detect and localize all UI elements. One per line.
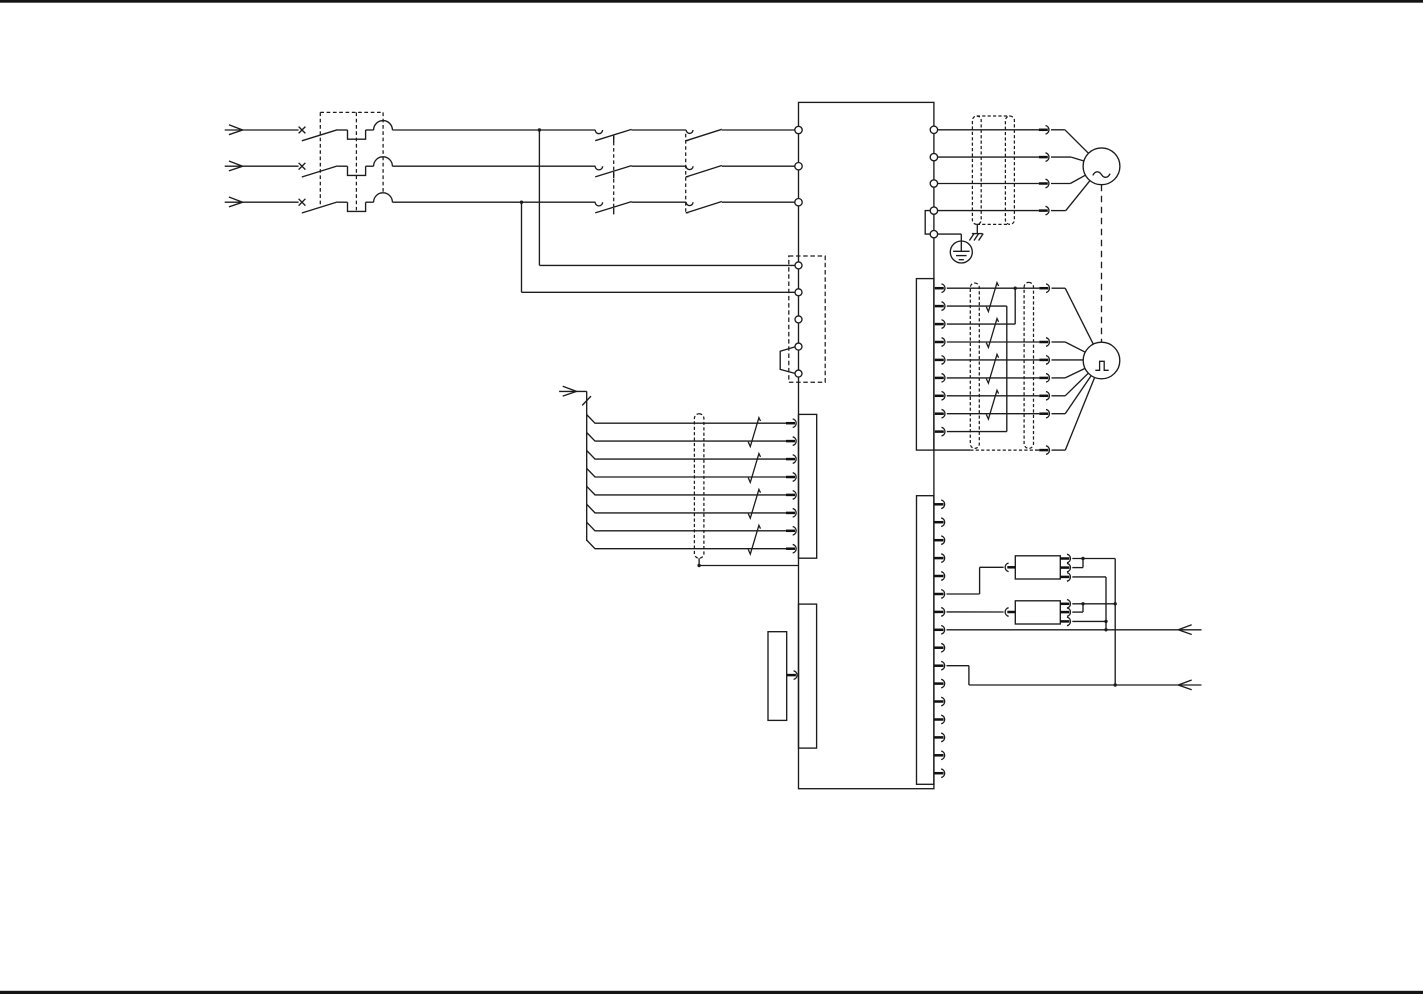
external arrow 2	[1178, 680, 1192, 690]
contactor 2 pole L3	[686, 202, 795, 213]
twisted pair 1 (CN2)	[986, 283, 998, 312]
CN1 wire pin8 (external)	[947, 629, 1202, 631]
CN1 pin 1	[935, 500, 945, 509]
CN1 pin 6	[935, 590, 945, 599]
CN3 pin 5	[786, 491, 796, 500]
CN2 pin 2	[935, 302, 945, 311]
cable break slash	[582, 396, 591, 405]
CN3 wire 5	[587, 486, 786, 495]
CNP2 terminal P4	[795, 343, 802, 350]
motor cable connector V	[1039, 153, 1049, 162]
power input arrow L1	[225, 125, 299, 135]
contactor 2 pole L1	[686, 129, 795, 140]
motor cable connector +	[1039, 206, 1049, 215]
twisted pair 4 (CN2)	[986, 390, 998, 419]
wire tap L11 from phase 1	[538, 128, 795, 265]
twisted pair 3 (CN2)	[986, 354, 998, 383]
CN2 pin 6	[935, 374, 945, 383]
junction pin1-pin3	[1014, 288, 1016, 324]
RA1 input pin	[1005, 563, 1015, 572]
battery unit	[768, 632, 787, 721]
page header rule	[0, 0, 1423, 3]
CN3 cable shield (dashed)	[694, 414, 704, 559]
CN1 wire pin7 to RA2	[947, 611, 1004, 613]
RA2 output wiring	[1072, 602, 1117, 623]
CN2 wire pin8	[947, 413, 1040, 415]
CN1 pin 13	[935, 715, 945, 724]
servo amplifier outline	[799, 102, 934, 788]
CN1 pin 3	[935, 536, 945, 545]
CN3 wire 2	[587, 433, 786, 442]
junction pin2-pin9	[1006, 306, 1008, 432]
motor cable shield (dashed)	[972, 116, 1014, 224]
encoder lead 1	[1052, 288, 1094, 344]
twisted pair 3 (CN3)	[748, 489, 760, 518]
terminal L3 circle	[795, 199, 802, 206]
CN2 connector body	[916, 279, 934, 451]
CNP2 terminal L11	[795, 262, 802, 269]
CNP2 terminal D	[795, 370, 802, 377]
RA1 output pin 3	[1060, 573, 1070, 582]
encoder lead 6	[1052, 376, 1092, 414]
encoder connector 3	[1039, 356, 1049, 365]
encoder connector 1	[1039, 284, 1049, 293]
CN2 pin 9	[935, 427, 945, 436]
relay bus vertical 2	[1114, 559, 1117, 687]
twisted pair 1 (CN3)	[748, 418, 760, 447]
RA1 output wiring	[1072, 557, 1115, 577]
motor lead W	[1051, 175, 1085, 183]
MCCB pole L3 (switch, overload, trip)	[302, 193, 596, 213]
twisted pair 2 (CN3)	[748, 454, 760, 483]
CN2 wire pin5	[947, 359, 1040, 361]
servo motor M	[1083, 148, 1120, 185]
RA2 output pin 2	[1060, 608, 1070, 617]
CN2 pin 1	[935, 284, 945, 293]
MCCB pole L1 (switch, overload, trip)	[302, 121, 596, 141]
contactor MC linkage (dashed)	[613, 136, 615, 208]
CN2 wire pin2	[947, 305, 1007, 307]
CN2 pin 3	[935, 320, 945, 329]
page footer rule	[0, 991, 1423, 994]
motor-encoder shaft (dashed)	[1101, 185, 1103, 342]
encoder	[1083, 342, 1120, 379]
input terminal X L1	[299, 127, 306, 134]
CN3 wire 4	[587, 468, 786, 477]
line filter / contactor 2 linkage (dashed)	[685, 134, 687, 213]
encoder lead 3	[1052, 359, 1084, 361]
encoder connector 2	[1039, 338, 1049, 347]
wire tap L21 from phase 3	[520, 201, 795, 293]
CN1 wire pin6 to RA1	[947, 567, 1004, 594]
CN1 pin 10	[935, 661, 945, 670]
CNP2 terminal L21	[795, 289, 802, 296]
CN2 wire pin9	[947, 431, 1007, 433]
external arrow 1	[1178, 625, 1192, 635]
relay RA2 body	[1015, 601, 1060, 624]
PE wire	[938, 234, 962, 251]
encoder lead 2	[1052, 342, 1086, 352]
CN3 pin 2	[786, 437, 796, 446]
CN2 wire pin4	[947, 341, 1040, 343]
encoder lead 5	[1052, 373, 1089, 396]
CN1 pin 15	[935, 751, 945, 760]
CN1 pin 8	[935, 626, 945, 635]
CN2 wire pin3	[947, 323, 1015, 325]
terminal PE circle	[930, 230, 937, 237]
CN3 shield drain	[697, 558, 798, 567]
CN3 pin 7	[786, 526, 796, 535]
contactor MC pole L2	[595, 166, 686, 179]
RA1 output pin 1	[1060, 554, 1070, 563]
CN3 wire 8	[587, 540, 786, 549]
CN1 pin 16	[935, 769, 945, 778]
CN2 shield drain wire	[934, 449, 1039, 451]
CN3 pin 8	[786, 544, 796, 553]
contactor MC pole L1	[595, 129, 686, 142]
CN1 pin 14	[935, 733, 945, 742]
CN3 pin 3	[786, 455, 796, 464]
motor lead +	[1051, 181, 1090, 211]
battery connector pin	[787, 671, 797, 680]
CN3 pin 4	[786, 473, 796, 482]
RA2 input pin	[1005, 608, 1015, 617]
encoder connector 5	[1039, 391, 1049, 400]
CN2 wire pin7	[947, 395, 1040, 397]
power input arrow L2	[225, 161, 299, 171]
encoder lead 4	[1052, 368, 1086, 378]
RA2 output pin 1	[1060, 600, 1070, 609]
CN2 wire pin6	[947, 377, 1040, 379]
CN1 wire pin10 (external)	[947, 666, 1202, 685]
CN3 wire 1	[587, 415, 786, 424]
CN3 wire 7	[587, 522, 786, 531]
terminal jumper bracket	[925, 211, 930, 235]
power input arrow L3	[225, 197, 299, 207]
jumper P+ to D	[780, 347, 795, 374]
CN1 pin 12	[935, 697, 945, 706]
contactor 2 pole L2	[686, 166, 795, 177]
relay RA1 body	[1015, 556, 1060, 579]
cable bundle	[586, 391, 588, 541]
RA1 output pin 2	[1060, 563, 1070, 572]
MCCB pole L2 (switch, overload, trip)	[302, 157, 596, 177]
terminal + circle	[930, 207, 937, 214]
CN1 pin 7	[935, 608, 945, 617]
CN2 pin 8	[935, 409, 945, 418]
terminal U circle	[930, 126, 937, 133]
terminal W circle	[930, 180, 937, 187]
motor power wire W	[938, 183, 1039, 185]
input terminal X L3	[299, 199, 306, 206]
CN1 pin 2	[935, 518, 945, 527]
contactor MC pole L3	[595, 202, 686, 215]
encoder connector 7	[1039, 446, 1049, 455]
CN3 pin 1	[786, 419, 796, 428]
CN3 connector body	[799, 414, 817, 558]
motor power wire +	[938, 210, 1039, 212]
encoder cable shield left (dashed)	[970, 283, 979, 448]
motor lead U	[1051, 130, 1089, 154]
MCCB dashed enclosure	[320, 112, 383, 210]
encoder cable shield right (dashed)	[1024, 282, 1033, 448]
CNP2 connector (dashed)	[789, 256, 825, 382]
controller cable arrow	[559, 386, 587, 396]
terminal L2 circle	[795, 163, 802, 170]
CN1 pin 9	[935, 643, 945, 652]
CN3 wire 6	[587, 504, 786, 513]
CN3 pin 6	[786, 509, 796, 518]
input terminal X L2	[299, 163, 306, 170]
CN2 pin 7	[935, 391, 945, 400]
CNP2 terminal P3	[795, 316, 802, 323]
motor cable connector W	[1039, 179, 1049, 188]
encoder connector 6	[1039, 409, 1049, 418]
terminal V circle	[930, 153, 937, 160]
CN2 pin 5	[935, 356, 945, 365]
motor power wire V	[938, 156, 1039, 158]
CN1 pin 11	[935, 679, 945, 688]
encoder lead 7	[1052, 378, 1095, 451]
shield chassis ground	[969, 224, 983, 240]
relay bus vertical 1	[1104, 577, 1107, 632]
CN2 wire pin1 (MR)	[947, 287, 1040, 290]
motor lead V	[1051, 157, 1084, 161]
RA2 output pin 3	[1060, 617, 1070, 626]
CN1 pin 5	[935, 572, 945, 581]
battery mount connector body	[799, 604, 817, 748]
CN3 wire 3	[587, 451, 786, 460]
CN1 pin 4	[935, 554, 945, 563]
CN1 connector body	[917, 496, 934, 785]
encoder connector 4	[1039, 374, 1049, 383]
motor cable connector U	[1039, 126, 1049, 135]
twisted pair 2 (CN2)	[986, 319, 998, 348]
motor power wire U	[938, 129, 1039, 131]
terminal L1 circle	[795, 126, 802, 133]
twisted pair 4 (CN3)	[748, 525, 760, 554]
protective earth (PE) symbol	[950, 241, 972, 263]
CN2 pin 4	[935, 338, 945, 347]
